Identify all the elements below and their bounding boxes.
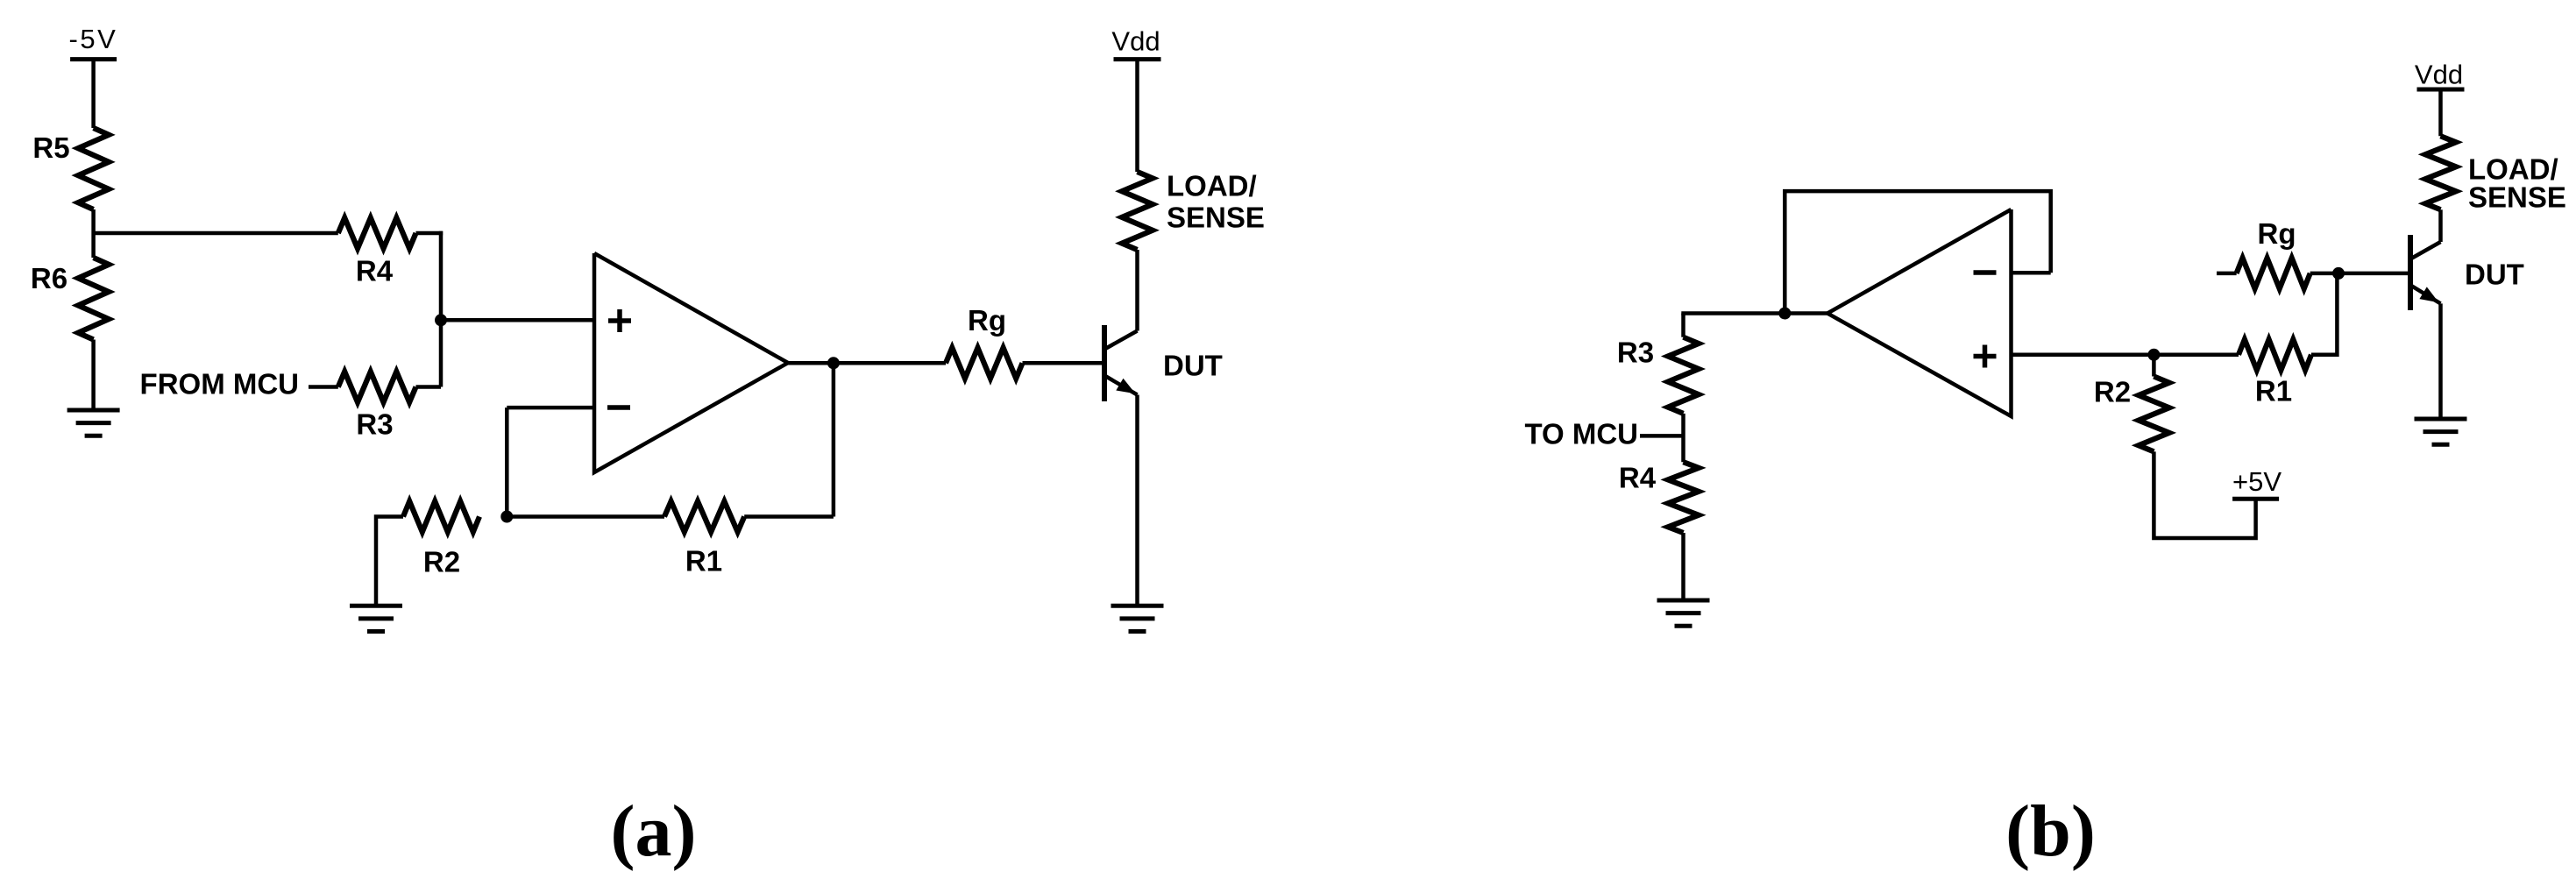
transistor DUT base bar (1102, 325, 1107, 401)
svg-text:R6: R6 (31, 262, 67, 294)
power Vdd bar b (2417, 88, 2465, 92)
resistor R2 b (2139, 377, 2169, 452)
svg-text:R1: R1 (2255, 375, 2292, 408)
node inverting junction (500, 511, 513, 523)
svg-text:Rg: Rg (968, 304, 1006, 337)
node feedback junction (1778, 308, 1791, 320)
resistor R1 (664, 501, 744, 532)
svg-text:Vdd: Vdd (1111, 26, 1160, 57)
wire to opamp minus (507, 406, 594, 410)
resistor R6 (78, 258, 109, 340)
power Vdd bar a (1114, 57, 1161, 61)
svg-text:(a): (a) (611, 790, 697, 872)
wire inverting node up (505, 408, 509, 516)
wire R1 to inverting node (507, 514, 664, 519)
wire junction to opamp + (441, 318, 594, 322)
svg-text:-5V: -5V (69, 24, 118, 54)
svg-text:SENSE: SENSE (1167, 202, 1265, 234)
op-amp U2 plus symbol (1974, 354, 1997, 359)
wire Rg to base b (2310, 272, 2408, 276)
wire R4 to corner (416, 231, 444, 236)
svg-text:R2: R2 (423, 546, 460, 578)
op-amp U1 plus input symbol (608, 318, 631, 323)
transistor DUT b collector diagonal (2411, 242, 2441, 259)
node output junction (827, 357, 840, 369)
wire R2 to ground corner (376, 517, 403, 606)
wire R4 to ground (1681, 533, 1685, 600)
wire plus input (2012, 353, 2239, 358)
wire opamp output (788, 361, 946, 365)
wire Rg to base (1023, 361, 1103, 365)
ground R2 (350, 604, 402, 608)
wire R2 to +5V (2154, 451, 2255, 538)
wire R2 top (2152, 355, 2156, 377)
resistor R3 (338, 372, 416, 402)
svg-text:+5V: +5V (2232, 466, 2281, 497)
node noninverting junction (435, 314, 447, 326)
transistor DUT collector diagonal (1105, 331, 1138, 350)
wire corner down to R3 (439, 231, 444, 387)
resistor R3 b (1668, 337, 1699, 414)
transistor DUT b base bar (2408, 235, 2413, 310)
ground left rail (67, 408, 120, 413)
svg-text:Rg: Rg (2258, 217, 2296, 250)
svg-text:R3: R3 (1617, 337, 1654, 369)
op-amp U2 (1827, 209, 2012, 416)
svg-text:(b): (b) (2005, 790, 2096, 872)
wire R3 to corner (416, 385, 442, 389)
node R2 junction (2147, 349, 2160, 361)
wire TO MCU stub (1640, 434, 1684, 438)
transistor DUT b emitter diagonal (2411, 286, 2441, 304)
power -5V bar (70, 57, 117, 61)
svg-text:LOAD/: LOAD/ (1167, 170, 1257, 202)
svg-text:R3: R3 (356, 408, 393, 441)
svg-text:R4: R4 (1619, 462, 1657, 494)
svg-text:R2: R2 (2094, 376, 2131, 408)
wire FROM MCU stub (309, 385, 338, 389)
resistor R2 (403, 501, 479, 532)
resistor LOAD/SENSE a (1122, 172, 1153, 250)
wire minus stub (2012, 271, 2051, 275)
wire emitter down (1135, 395, 1139, 606)
resistor LOAD/SENSE b (2425, 136, 2456, 209)
svg-text:R1: R1 (685, 545, 722, 578)
wire divider to opamp output (1681, 311, 1827, 315)
wire R3 to R4 (1681, 414, 1685, 462)
resistor Rg (946, 348, 1023, 379)
ground emitter b (2415, 417, 2467, 422)
op-amp U2 minus symbol (1974, 270, 1997, 275)
transistor DUT emitter diagonal (1105, 376, 1138, 395)
svg-text:R4: R4 (356, 255, 394, 287)
svg-text:Vdd: Vdd (2415, 60, 2463, 90)
wire -5V to R5 (91, 60, 96, 128)
resistor R4 b (1668, 462, 1699, 533)
resistor Rg b (2237, 258, 2310, 288)
svg-text:DUT: DUT (1163, 350, 1223, 382)
wire node to R4 (94, 231, 338, 236)
wire feedback loop (1785, 191, 2050, 313)
resistor R4 (338, 218, 416, 249)
ground divider b (1657, 599, 1710, 603)
wire output down (832, 363, 836, 516)
resistor R1 b (2239, 339, 2311, 370)
power +5V bar (2232, 497, 2279, 501)
wire load to Vdd b (2438, 89, 2443, 136)
svg-text:DUT: DUT (2465, 259, 2524, 291)
svg-text:R5: R5 (32, 131, 69, 164)
wire R6 to ground (91, 340, 96, 411)
wire R5 to node (91, 209, 96, 258)
resistor R5 (78, 128, 109, 209)
svg-text:FROM MCU: FROM MCU (140, 368, 299, 400)
transistor DUT emitter arrow (1116, 379, 1135, 394)
wire load to Vdd (1135, 60, 1139, 172)
wire R1 corner up (2311, 273, 2337, 355)
transistor DUT b emitter arrow (2419, 287, 2438, 302)
wire feedback horizontal right (744, 514, 834, 519)
wire collector up b (2438, 209, 2443, 242)
wire collector up (1135, 250, 1139, 331)
op-amp U1 (594, 253, 788, 472)
node base junction b (2332, 267, 2345, 280)
op-amp U1 minus input symbol (607, 405, 630, 410)
svg-text:TO MCU: TO MCU (1524, 418, 1638, 450)
wire Rg stub b (2217, 272, 2237, 276)
wire emitter down b (2438, 303, 2443, 419)
svg-text:SENSE: SENSE (2468, 181, 2566, 214)
wire divider top corner (1681, 314, 1685, 337)
ground emitter a (1111, 604, 1164, 608)
